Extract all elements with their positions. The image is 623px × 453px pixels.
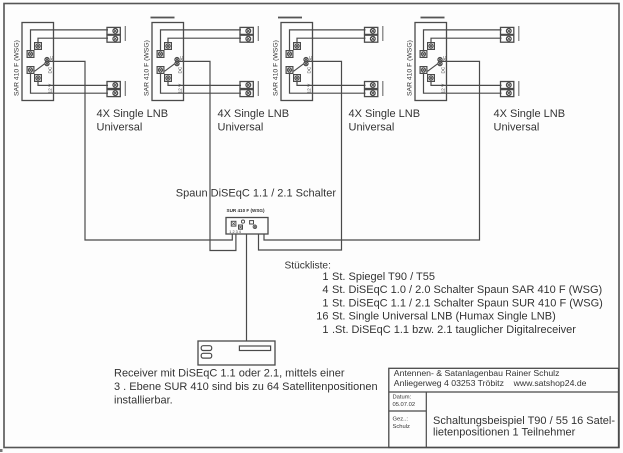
svg-text:12 V: 12 V bbox=[178, 83, 184, 94]
svg-text:Schulz: Schulz bbox=[393, 424, 411, 430]
svg-text:St. Single Universal LNB (Huma: St. Single Universal LNB (Humax Single L… bbox=[332, 311, 556, 323]
svg-text:SAR 410 F (WSG): SAR 410 F (WSG) bbox=[407, 40, 414, 96]
svg-text:4X Single LNB: 4X Single LNB bbox=[494, 108, 566, 120]
svg-text:installierbar.: installierbar. bbox=[114, 395, 173, 407]
svg-text:DC: DC bbox=[48, 66, 53, 73]
svg-text:St. Spiegel T90 / T55: St. Spiegel T90 / T55 bbox=[332, 271, 435, 283]
svg-text:St. DiSEqC 1.1 / 2.1 Schalter: St. DiSEqC 1.1 / 2.1 Schalter Spaun SUR … bbox=[332, 297, 603, 309]
svg-text:12 V: 12 V bbox=[48, 83, 54, 94]
svg-text:12 V: 12 V bbox=[441, 83, 447, 94]
svg-text:Universal: Universal bbox=[97, 122, 143, 134]
svg-text:4: 4 bbox=[322, 284, 328, 296]
svg-text:Universal: Universal bbox=[494, 122, 540, 134]
svg-text:16: 16 bbox=[316, 311, 328, 323]
svg-text:lietenpositionen 1 Teilnehmer: lietenpositionen 1 Teilnehmer bbox=[433, 427, 576, 439]
svg-text:1: 1 bbox=[322, 297, 328, 309]
svg-text:St. DiSEqC 1.0 / 2.0 Schalter: St. DiSEqC 1.0 / 2.0 Schalter Spaun SAR … bbox=[332, 284, 602, 296]
svg-text:DC: DC bbox=[178, 66, 183, 73]
svg-text:Datum:: Datum: bbox=[393, 394, 412, 400]
svg-text:.St. DiSEqC 1.1 bzw. 2.1 taugl: .St. DiSEqC 1.1 bzw. 2.1 tauglicher Digi… bbox=[332, 324, 576, 336]
svg-text:1 2 3 4: 1 2 3 4 bbox=[229, 230, 241, 234]
svg-text:SAR 410 F (WSG): SAR 410 F (WSG) bbox=[144, 40, 151, 96]
svg-text:1: 1 bbox=[322, 324, 328, 336]
svg-text:4X Single LNB: 4X Single LNB bbox=[218, 108, 290, 120]
svg-text:Antennen- & Satanlagenbau Rain: Antennen- & Satanlagenbau Rainer Schulz bbox=[394, 368, 560, 378]
svg-text:DC: DC bbox=[307, 66, 312, 73]
svg-text:Spaun DiSEqC 1.1 / 2.1 Schalte: Spaun DiSEqC 1.1 / 2.1 Schalter bbox=[176, 188, 337, 200]
svg-text:SUR 410 F (WSG): SUR 410 F (WSG) bbox=[227, 208, 266, 213]
svg-text:SAR 410 F (WSG): SAR 410 F (WSG) bbox=[273, 40, 280, 96]
svg-text:Receiver mit DiSEqC 1.1 oder 2: Receiver mit DiSEqC 1.1 oder 2.1, mittel… bbox=[114, 368, 345, 380]
svg-text:1: 1 bbox=[322, 271, 328, 283]
svg-text:Schaltungsbeispiel T90 / 55 16: Schaltungsbeispiel T90 / 55 16 Satel- bbox=[433, 415, 615, 427]
svg-text:Anliegerweg 4 03253 Tröbitz: Anliegerweg 4 03253 Tröbitz www.satshop2… bbox=[394, 378, 587, 388]
svg-text:4X Single LNB: 4X Single LNB bbox=[349, 108, 421, 120]
svg-text:4X Single LNB: 4X Single LNB bbox=[97, 108, 169, 120]
svg-text:3 . Ebene SUR 410 sind bis zu: 3 . Ebene SUR 410 sind bis zu 64 Satelli… bbox=[114, 381, 378, 393]
svg-text:05.07.02: 05.07.02 bbox=[393, 402, 416, 408]
svg-text:Universal: Universal bbox=[218, 122, 264, 134]
svg-text:Gez..:: Gez..: bbox=[393, 417, 409, 423]
svg-text:DC: DC bbox=[441, 66, 446, 73]
svg-text:12 V: 12 V bbox=[307, 83, 313, 94]
svg-text:SAR 410 F (WSG): SAR 410 F (WSG) bbox=[14, 40, 21, 96]
svg-text:Universal: Universal bbox=[349, 122, 395, 134]
